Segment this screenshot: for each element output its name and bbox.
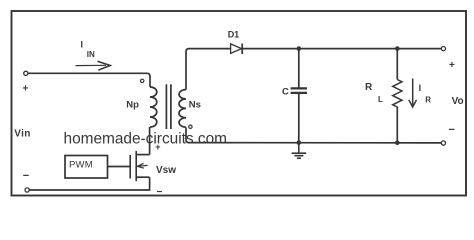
svg-text:I: I [419,83,422,93]
wire bottom rail Vin- [29,189,150,191]
wire source to bottom rail [149,177,151,190]
svg-text:D1: D1 [228,29,240,39]
wire secondary bottom to output- rail [186,127,441,142]
svg-text:PWM: PWM [69,159,93,170]
svg-text:+: + [23,84,29,95]
PWM controller box [65,156,108,179]
diode D1 [228,29,243,54]
svg-text:−: − [157,187,163,198]
svg-text:I: I [81,40,84,50]
wire input top to transformer primary [28,73,150,87]
svg-text:C: C [282,87,289,98]
node Vo- terminal [441,124,455,145]
svg-text:homemade-circuits.com: homemade-circuits.com [64,131,228,148]
junction dot top capacitor [297,46,302,51]
transformer T1 secondary winding Ns [179,90,201,128]
junction dot resistor bottom [395,140,400,145]
phase dot primary [141,79,144,82]
svg-text:Np: Np [126,100,139,111]
svg-text:Vo: Vo [452,96,464,107]
resistor RL branch wire top [396,49,398,80]
svg-text:+: + [449,60,455,71]
wire drain to primary bottom [149,127,151,155]
wire diode cathode to output+ [242,48,441,50]
svg-text:R: R [425,95,431,104]
phase dot secondary [189,125,192,128]
wire secondary top to diode anode [186,49,231,90]
wire PWM to gate [108,166,131,168]
transformer core [166,84,171,129]
junction dot top resistor [395,46,400,51]
node Vo+ terminal [441,47,455,72]
svg-text:+: + [155,142,160,152]
resistor RL [365,80,402,108]
current arrow IR [409,79,431,108]
node Vin+ terminal [23,71,29,94]
svg-text:−: − [449,124,455,136]
svg-text:−: − [23,170,29,182]
capacitor C branch wire top [298,49,300,88]
svg-text:R: R [365,82,373,93]
capacitor C [282,87,307,98]
node Vin- terminal [23,170,29,192]
capacitor C branch wire bottom [298,94,300,143]
transistor Q1 MOSFET Vsw [130,151,176,181]
svg-text:IN: IN [87,50,95,59]
transformer T1 primary winding Np [126,87,157,127]
junction dot ground [297,140,302,145]
current arrow IIN [76,40,111,71]
svg-text:Vsw: Vsw [156,165,176,176]
ground symbol [292,143,307,159]
svg-text:L: L [378,95,383,104]
border frame [12,11,467,196]
resistor RL branch wire bottom [396,107,398,143]
svg-text:Vin: Vin [14,129,31,140]
svg-text:Ns: Ns [189,100,201,111]
